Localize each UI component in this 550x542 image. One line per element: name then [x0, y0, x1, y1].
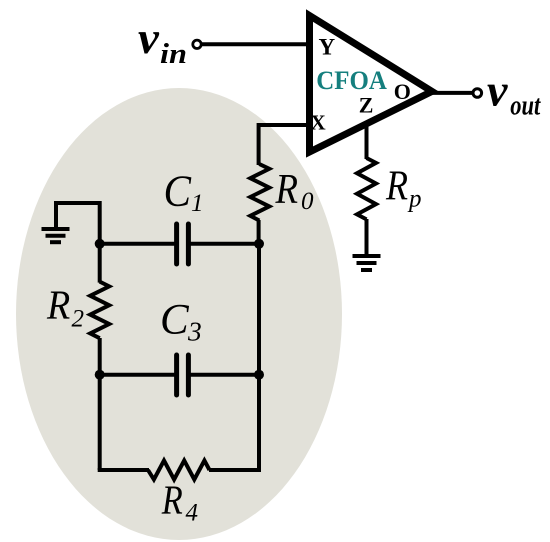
svg-text:CFOA: CFOA	[316, 65, 387, 95]
wire X to R0	[259, 125, 308, 165]
label C1	[164, 167, 204, 218]
terminal vin	[193, 40, 201, 48]
resistor R4	[148, 461, 210, 480]
wire vin to Y	[202, 42, 309, 46]
label C3	[160, 297, 202, 347]
label vout	[487, 64, 541, 121]
wire R2 down to node C	[98, 338, 102, 375]
op-amp U1 CFOA	[310, 16, 433, 153]
label R4	[161, 476, 198, 526]
svg-text:p: p	[407, 186, 422, 213]
label Rp	[385, 163, 421, 212]
wire C1 to node B	[191, 242, 260, 246]
wire node C down left side	[98, 375, 102, 470]
svg-text:C: C	[164, 167, 192, 216]
ground under Rp	[353, 256, 381, 270]
node B junction	[254, 239, 264, 249]
terminal vout	[473, 89, 482, 98]
label R0	[275, 167, 314, 215]
wire Z down	[365, 122, 369, 159]
wire node C to C3	[100, 373, 175, 377]
svg-text:2: 2	[72, 305, 85, 332]
wire O to vout	[430, 91, 472, 95]
svg-text:R: R	[161, 476, 183, 522]
svg-text:R: R	[275, 167, 298, 213]
svg-text:X: X	[311, 111, 326, 135]
svg-text:C: C	[160, 297, 190, 344]
wire R4 to bottom right	[209, 468, 261, 472]
resistor R0	[250, 164, 269, 221]
svg-text:R: R	[46, 281, 70, 327]
resistor R2	[90, 282, 109, 339]
label R2	[46, 281, 84, 332]
wire node A to C1	[100, 242, 175, 246]
node C junction	[95, 370, 105, 380]
svg-text:v: v	[487, 64, 508, 115]
wire R0 bottom	[257, 220, 261, 244]
svg-text:0: 0	[301, 188, 314, 215]
svg-text:1: 1	[191, 190, 204, 217]
wire Rp to ground	[365, 219, 369, 256]
resistor Rp	[357, 158, 376, 219]
wire C3 to node D	[191, 373, 260, 377]
svg-text:O: O	[394, 79, 411, 104]
node D junction	[254, 370, 264, 380]
capacitor C1	[177, 224, 189, 264]
shaded ellipse region	[16, 88, 342, 540]
ground top-left	[42, 201, 70, 242]
node A junction	[95, 239, 105, 249]
wire ground L to node A	[56, 203, 100, 244]
svg-text:3: 3	[187, 315, 202, 346]
label vin	[138, 12, 187, 70]
svg-text:Z: Z	[359, 92, 374, 117]
svg-text:Y: Y	[319, 35, 336, 60]
wire bottom left to R4	[98, 468, 149, 472]
svg-text:4: 4	[186, 499, 199, 526]
svg-text:in: in	[160, 39, 187, 70]
svg-text:out: out	[510, 91, 541, 122]
capacitor C3	[177, 355, 189, 395]
wire node A down to R2	[98, 244, 102, 283]
wire node B to node D to bottom right corner	[257, 244, 261, 470]
svg-text:v: v	[138, 12, 159, 63]
svg-text:R: R	[385, 163, 408, 209]
